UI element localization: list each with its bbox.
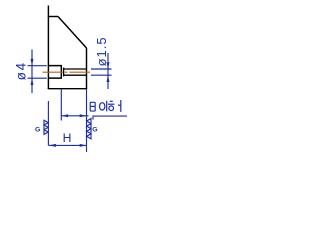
dim 8-ihah ext left — [60, 89, 62, 121]
dim 8-ihah arrow right — [80, 114, 87, 117]
dim H arrow right — [80, 144, 87, 147]
plate right edge — [86, 48, 88, 89]
dim D4 arrow top — [31, 59, 34, 66]
surface finish triangles left — [44, 120, 48, 134]
dim D1.5 ext top — [91, 68, 112, 70]
plate bottom edge — [48, 88, 87, 90]
dim D4 ext bottom — [28, 77, 47, 79]
dim D1.5 ext bottom — [91, 74, 112, 76]
dim D1.5 arrow top — [107, 62, 110, 69]
svg-text:H: H — [63, 131, 72, 145]
dim H ext left — [47, 101, 49, 145]
dim H line — [48, 144, 86, 146]
dim H arrow left — [48, 144, 56, 147]
svg-text:ø4: ø4 — [14, 61, 29, 80]
dim D1.5 line — [107, 53, 109, 89]
dim D4 ext top — [28, 65, 47, 67]
dim 8-ihah line — [61, 115, 88, 117]
dim D4 line — [31, 50, 33, 94]
dim D4 arrow bottom — [31, 78, 34, 85]
svg-text:ø1.5: ø1.5 — [94, 36, 109, 66]
hole bottom line — [64, 74, 87, 76]
svg-text:G: G — [35, 127, 40, 134]
centerline — [43, 71, 91, 73]
hole top line — [64, 68, 87, 70]
dim 8-ihah text leader underline — [93, 116, 127, 120]
dim D1.5 arrow bottom — [107, 75, 110, 82]
plate top edge — [48, 16, 58, 18]
plate chamfer — [58, 17, 87, 49]
dim 8-ihah label "i" (hangul drawn) — [100, 101, 107, 112]
dim 8-ihah ext right / plate edge extension — [86, 89, 88, 152]
svg-text:G: G — [92, 127, 97, 134]
dim 8-ihah arrow left — [61, 114, 68, 117]
counterbore D4 — [48, 66, 61, 79]
dim 8-ihah label "8" — [90, 102, 95, 111]
surface finish triangles right — [87, 119, 91, 139]
plate left edge — [47, 6, 49, 90]
hole step face — [63, 68, 65, 77]
dim 8-ihah label "ha" (hangul drawn) — [108, 100, 121, 112]
